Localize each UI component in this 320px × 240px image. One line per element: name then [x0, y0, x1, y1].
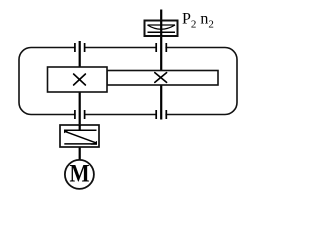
svg-text:M: M: [69, 160, 89, 188]
